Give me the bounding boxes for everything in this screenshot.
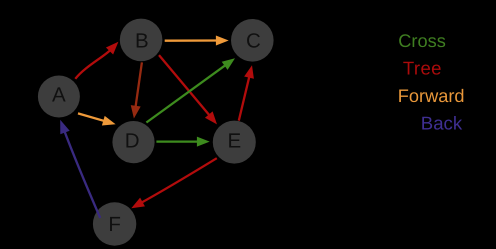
svg-text:A: A xyxy=(52,84,66,107)
svg-text:B: B xyxy=(135,29,149,52)
svg-text:Tree: Tree xyxy=(403,58,442,79)
svg-text:F: F xyxy=(108,213,121,236)
svg-text:Cross: Cross xyxy=(398,31,446,51)
svg-text:Forward: Forward xyxy=(398,86,465,106)
svg-text:D: D xyxy=(125,130,140,153)
svg-text:C: C xyxy=(246,29,261,52)
svg-text:E: E xyxy=(227,130,241,153)
svg-text:Back: Back xyxy=(421,113,463,134)
